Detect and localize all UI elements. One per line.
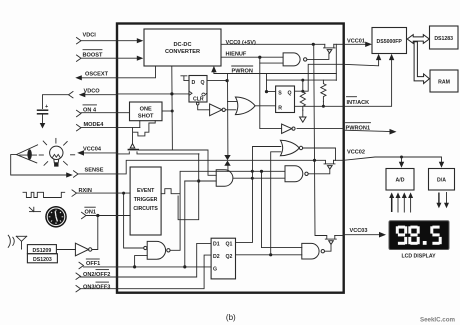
BOOST input label [77,50,103,62]
wire VDCI [81,40,138,42]
node +5V tap [312,43,315,46]
OR gate G2 [235,97,255,115]
wire OSCEXT [80,67,156,78]
ON3/OFF3 input label [76,282,110,292]
svg-text:CONVERTER: CONVERTER [165,49,200,55]
wire RXIN [77,192,131,194]
wire VCC0 rail [221,43,325,45]
wire one-shot output [162,110,172,112]
SENSE input label [74,167,104,177]
wire PWRON1 [297,128,344,130]
svg-text:A/D: A/D [396,178,405,184]
arrow left VCC04 [77,150,84,155]
wire EVENT box to G4 in1 [124,193,144,248]
wire rail H80 [267,79,337,81]
toggle switch [29,207,40,211]
svg-text:D: D [192,80,196,86]
ground arrow R1 [302,110,304,117]
node VDCO crossing [170,92,173,95]
INT/ACK label [347,97,370,106]
MODE4 input label [77,122,105,131]
wire G1 out to Q1 gate [307,53,329,59]
clock [45,206,67,228]
svg-text:DS5000FP: DS5000FP [377,39,403,45]
wire R2 to INT line [322,102,324,107]
wire BOOST [81,57,138,59]
D flip-flop [189,76,208,105]
wire +5V vertical rail [314,44,322,235]
svg-text:D1: D1 [213,242,220,248]
node Q SR [301,90,304,93]
svg-text:S: S [278,91,282,97]
wire G5 out to VCC02 drain [303,148,336,160]
node AND input crossing [197,179,200,182]
arrow into DC-DC [137,38,144,43]
wire G4 out up to H171 [170,171,285,250]
wire ON3/OFF3 [81,255,212,289]
wire G2 out to R input [255,105,276,107]
svg-text:G: G [213,267,217,273]
pushbutton switch [117,144,199,154]
D/A converter [429,169,455,191]
svg-text:VCC03: VCC03 [350,228,368,234]
PWRON1 label [346,123,371,132]
NAND G1 [283,53,307,66]
battery BT1 [37,104,49,129]
svg-text:OSCEXT: OSCEXT [85,71,109,77]
resistor R1 [300,80,305,110]
svg-text:DC-DC: DC-DC [173,42,191,48]
wire G3 output [233,177,285,179]
svg-text:SENSE: SENSE [85,167,104,173]
svg-text:ON1: ON1 [85,209,97,215]
node one-shot/column [171,110,174,113]
svg-text:SHOT: SHOT [138,114,154,120]
ON2/OFF2 input label [76,270,110,280]
node Q2 branch [269,253,272,256]
wire G6 out to Q3 gate [325,245,332,251]
svg-text:Q: Q [201,80,205,86]
svg-text:CIRCUITS: CIRCUITS [133,206,158,212]
svg-text:(b): (b) [226,313,236,322]
waveform dip annotation [134,121,156,136]
svg-text:VCC04: VCC04 [83,147,102,153]
node R2/INT [322,105,325,108]
wire antenna to DS1209 [21,248,23,250]
svg-text:Q: Q [288,91,292,97]
antenna [8,235,27,249]
svg-text:Q1: Q1 [226,242,233,248]
RXIN input label [72,188,92,196]
digit 9 [396,226,407,245]
one shot [130,102,163,121]
DS5000FP to DS1283 hollow double arrow [407,35,429,44]
svg-text:EVENT: EVENT [137,188,155,194]
arrow into DS5000FP [365,42,372,47]
DC-DC converter U1 [144,29,221,66]
wire VDCO external to battery [43,95,69,109]
svg-text:ON3/OFF3: ON3/OFF3 [83,284,110,290]
D flip-flop VCC tie [181,76,189,81]
wire PWRON column down [227,74,230,172]
arrow up into DC-DC [213,71,215,74]
wire button line down ON3 column [178,154,199,220]
A/D converter [386,169,414,191]
PMOS Q1 (VCC01 switch) [324,44,344,53]
NAND G7 (VCC02 driver) [285,166,308,182]
DS1209 [27,245,56,254]
wire PWRON line [214,73,336,75]
svg-text:VDCI: VDCI [83,33,97,39]
node Q/PWRON column [226,79,229,82]
wire Q2 branch to NOR in2 [271,152,281,255]
wire VDCO into box [85,94,117,96]
svg-text:VDCO: VDCO [84,89,101,95]
wire VCC01 [344,43,366,45]
ON1 input label [82,207,97,219]
big system box [117,24,344,293]
digit 8 [408,226,419,245]
DS5000FP [372,28,407,54]
D/A output arrows [436,193,449,209]
svg-text:TRIGGER: TRIGGER [134,197,158,203]
wire from inverter to ON1 [92,216,98,250]
wire VCC02 to A/D D/A [344,157,442,163]
resistor R2 [321,80,326,101]
wire MODE4 [81,127,140,129]
wire EVENT pulse annotation [161,189,180,194]
svg-text:D2: D2 [213,254,220,260]
svg-text:VCC02: VCC02 [347,150,365,156]
arrow into DC-DC [137,56,144,61]
wire OFF1 to G [84,266,212,268]
wire DS boxes to inverter [57,249,75,251]
SR latch [276,86,295,113]
wire DC-DC bottom column [172,67,216,176]
arrow left OSCEXT [75,75,82,80]
wire PWRON1 out [344,130,390,131]
svg-text:VCC01: VCC01 [347,38,365,44]
svg-text:+: + [45,104,48,110]
VDCO label [69,89,101,98]
wire ON2/OFF2 [81,243,212,277]
svg-text:DS1283: DS1283 [434,36,453,42]
svg-text:INT/ACK: INT/ACK [347,100,370,106]
A/D input arrows [389,192,413,212]
DS1283 [430,26,459,49]
node ON1 junction [96,214,99,217]
svg-text:ONE: ONE [140,107,152,113]
svg-text:HIENUF: HIENUF [226,52,247,58]
svg-text:OFF1: OFF1 [86,261,100,267]
svg-text:DS1203: DS1203 [33,257,52,263]
node H171 branch [260,170,263,173]
node G3 out crossing [251,177,254,180]
svg-text:DS1209: DS1209 [33,248,52,254]
wire Q2 to NAND G6 [236,254,302,256]
wire OR G2 upper input [228,101,238,103]
lamp [43,138,67,166]
wire U2 out to OR G2 [225,109,235,111]
svg-text:SeekIC.com: SeekIC.com [420,317,456,324]
wire HIENUF branch down to inverter U3 [260,57,282,128]
wire INT/ACK from SR [295,105,344,107]
inverter U5 [75,243,92,256]
wire H171 branch to G6 in1 [262,171,302,247]
svg-text:D/A: D/A [437,178,446,184]
AND gate G3 [216,170,233,186]
wire G3 lower input [185,180,216,182]
eye symbol [16,145,37,163]
NAND G4 (bottom left) [144,241,170,259]
digit 5 [430,226,441,245]
wire HIENUF [221,56,283,58]
wire INT/ACK to DS5000FP [344,58,392,107]
node OFF1/G column [183,265,186,268]
event trigger circuits [130,167,161,235]
wire CLR bubble to inverter U2 [198,105,210,110]
node OFF1 branch [133,265,136,268]
wire S input [267,80,276,92]
wire from eye to SENSE [11,155,67,175]
PWRON label [232,66,253,74]
DS1203 [27,254,57,263]
wire ON1 [86,215,130,217]
dash to bulb [71,154,75,156]
NAND G6 (VCC03 driver) [302,243,325,259]
node VCC02 source [313,159,316,162]
wire OFF1 column to AND [184,181,186,267]
OFF1 input label [79,259,100,269]
wire branch to NAND G1 lower input [260,62,283,64]
svg-text:Q2: Q2 [226,254,233,260]
svg-text:Q: Q [202,92,208,96]
arrow left VDCO [79,92,86,97]
wire one-shot lower left leg [133,121,140,144]
svg-text:VCC0 (+5V): VCC0 (+5V) [226,40,256,46]
NOR gate G5 [280,140,302,155]
wire line1 to DS5000FP [344,58,379,66]
pulse train annotation [23,192,65,197]
wire PWRON to rail H80 [266,74,268,81]
wire OFF1 to G4 in2 [135,256,148,267]
node S input [265,90,268,93]
svg-text:R: R [278,106,282,112]
ON 4 input label [77,105,97,117]
wire VCC03 to LCD [344,234,380,236]
node HIENUF [258,56,261,59]
svg-text:BOOST: BOOST [83,53,103,59]
node H80 [301,79,304,82]
wire Q out of SR [295,64,344,91]
node Q1 column crossing [251,170,254,173]
wire Q of D-flop [207,80,228,82]
PMOS Q2 (VCC02 switch) [315,160,344,169]
wire ON4 [81,112,130,114]
crystal/cross marker [224,155,230,166]
RAM [430,70,458,92]
svg-text:LCD DISPLAY: LCD DISPLAY [401,253,436,259]
PMOS Q3 (VCC03 switch) [321,236,343,245]
inverter U3 (PWRON1) [282,124,296,133]
decimal point [423,241,427,245]
wire SENSE into box [78,160,315,174]
VDCI input label [77,33,97,44]
wire VCC04 [85,152,118,154]
svg-text:RAM: RAM [438,80,450,86]
wire Q1 to NOR in1 [236,147,281,243]
wire G7 out to Q2 gate [308,170,330,174]
hollow arrow down to RAM [414,42,429,84]
inverter U2 [210,104,226,116]
LCD display [389,221,449,260]
transparent latch D1 D2 G [211,238,235,279]
